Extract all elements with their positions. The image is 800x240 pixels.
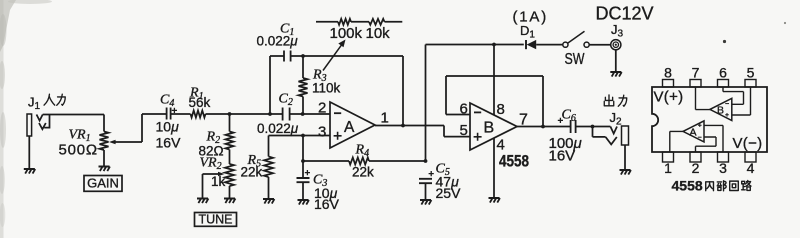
svg-text:7: 7 (692, 65, 700, 81)
svg-text:TUNE: TUNE (198, 213, 232, 227)
svg-text:0.022μ: 0.022μ (257, 34, 299, 49)
svg-text:22k: 22k (241, 165, 263, 180)
svg-text:0.022μ: 0.022μ (257, 121, 299, 136)
svg-text:500Ω: 500Ω (59, 142, 98, 159)
svg-text:10μ: 10μ (156, 119, 180, 135)
svg-text:2: 2 (692, 160, 700, 176)
svg-text:SW: SW (565, 51, 586, 68)
svg-text:16V: 16V (549, 148, 576, 165)
svg-text:6: 6 (719, 65, 727, 81)
svg-text:110k: 110k (312, 81, 341, 96)
svg-text:V(−): V(−) (733, 135, 763, 152)
svg-text:V(+): V(+) (654, 89, 684, 106)
svg-text:8: 8 (664, 65, 672, 81)
svg-text:5: 5 (747, 65, 755, 81)
svg-text:B: B (717, 105, 724, 117)
svg-text:4: 4 (747, 160, 755, 176)
svg-text:4: 4 (497, 137, 505, 154)
svg-text:B: B (484, 120, 495, 137)
svg-text:4558: 4558 (672, 178, 703, 194)
svg-text:GAIN: GAIN (87, 176, 119, 191)
svg-text:3: 3 (719, 160, 727, 176)
svg-text:1k: 1k (211, 174, 226, 189)
svg-text:16V: 16V (314, 196, 340, 212)
svg-text:2: 2 (318, 100, 326, 117)
svg-text:4558: 4558 (499, 153, 529, 171)
svg-text:DC12V: DC12V (596, 4, 654, 24)
svg-text:6: 6 (460, 101, 468, 118)
svg-text:(1A): (1A) (513, 9, 549, 26)
svg-text:A: A (344, 119, 355, 136)
svg-text:16V: 16V (156, 135, 182, 151)
svg-text:22k: 22k (352, 165, 374, 180)
svg-text:7: 7 (519, 112, 528, 129)
svg-text:56k: 56k (189, 95, 211, 110)
svg-text:5: 5 (460, 122, 468, 139)
svg-text:25V: 25V (436, 185, 462, 201)
svg-text:100k: 100k (330, 25, 363, 42)
svg-text:A: A (690, 127, 697, 139)
svg-text:8: 8 (497, 101, 505, 118)
svg-text:10k: 10k (366, 25, 391, 42)
svg-text:3: 3 (318, 124, 326, 141)
svg-text:1: 1 (664, 160, 672, 176)
svg-text:1: 1 (381, 110, 389, 127)
